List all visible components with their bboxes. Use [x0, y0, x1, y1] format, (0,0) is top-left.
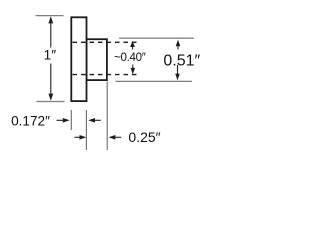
- dim 1in arrowhead down: [48, 94, 53, 101]
- dim 1in extension line bottom: [37, 101, 65, 103]
- hidden bore line top: [73, 41, 139, 43]
- dim 0.25 extension line right: [106, 82, 108, 151]
- dim 0.172 extension line right: [85, 110, 87, 150]
- dim 0.51 arrowhead up: [176, 40, 181, 47]
- dim 0.51 arrowhead down: [175, 74, 180, 81]
- dim 0.40 arrow up shaft: [132, 46, 134, 50]
- dim 0.40 arrowhead down: [131, 68, 136, 74]
- dim 0.40 arrow down shaft: [132, 65, 134, 69]
- dim 0.51 extension line top: [119, 37, 194, 39]
- dim 1in extension line top: [36, 15, 64, 17]
- dim 0.172 right arrow shaft: [94, 119, 101, 121]
- dim 0.51 extension line bottom: [116, 80, 193, 82]
- dim 1in dimension line lower segment: [50, 64, 52, 96]
- svg-text:0.25″: 0.25″: [128, 129, 160, 145]
- dim 0.25 left arrow shaft: [75, 136, 82, 138]
- dim 0.51 arrow up shaft: [177, 45, 179, 50]
- dim 0.25 right arrowhead: [109, 135, 116, 140]
- boss rect: [87, 39, 107, 80]
- hidden bore line bottom: [73, 74, 139, 76]
- svg-text:0.51″: 0.51″: [163, 52, 200, 69]
- svg-text:1″: 1″: [44, 47, 57, 63]
- svg-text:0.172″: 0.172″: [11, 113, 50, 128]
- flange rect: [71, 17, 86, 101]
- dim 0.172 right arrowhead: [88, 118, 95, 123]
- dim 1in dimension line upper segment: [50, 22, 52, 48]
- dim 0.172 left arrowhead: [63, 118, 70, 123]
- dim 1in arrowhead up: [48, 16, 53, 23]
- dim 0.25 left arrowhead: [80, 135, 87, 140]
- svg-text:~0.40″: ~0.40″: [114, 52, 146, 64]
- dim 0.40 arrowhead up: [130, 41, 135, 47]
- dim 0.25 right arrow shaft: [114, 136, 121, 138]
- dim 0.51 arrow down shaft: [177, 65, 179, 74]
- dim 0.172 extension line left: [70, 110, 72, 130]
- dim 0.172 left arrow shaft: [57, 119, 64, 121]
